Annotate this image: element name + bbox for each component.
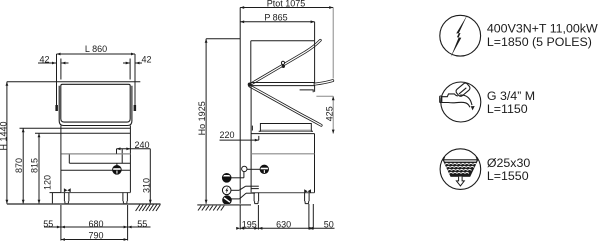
240 dim xyxy=(117,149,151,204)
legs xyxy=(64,193,127,204)
ground hatch middle xyxy=(198,206,224,211)
hood inner shell xyxy=(61,84,130,122)
basin xyxy=(443,157,477,176)
pivot dot xyxy=(248,83,252,87)
svg-text:L=1550: L=1550 xyxy=(487,169,529,183)
ground hatch right xyxy=(136,204,161,211)
down handle (band) xyxy=(250,86,322,125)
connection circle electric xyxy=(222,186,231,195)
svg-text:L 860: L 860 xyxy=(85,44,107,54)
svg-text:Ptot 1075: Ptot 1075 xyxy=(267,0,306,8)
120 dim line xyxy=(51,193,53,204)
870 dim line xyxy=(22,128,24,204)
left rail xyxy=(56,54,58,111)
ground line xyxy=(7,203,161,205)
Ptot dim line xyxy=(240,7,333,9)
Ho dim xyxy=(206,38,240,40)
svg-text:195: 195 xyxy=(242,219,257,229)
hood outer shell xyxy=(59,86,132,126)
svg-text:L=1150: L=1150 xyxy=(487,102,528,116)
body front view xyxy=(61,126,130,193)
svg-text:H 1440: H 1440 xyxy=(0,121,8,150)
side body xyxy=(220,85,315,193)
drain circle side view xyxy=(260,165,268,173)
water icon xyxy=(441,82,481,122)
310 dim line xyxy=(149,149,151,204)
body bottom side view xyxy=(251,192,314,194)
back wall xyxy=(239,8,241,204)
ground line middle xyxy=(197,204,251,206)
42 left dim lines xyxy=(38,62,56,64)
rack on counter xyxy=(259,124,313,132)
220 leader xyxy=(220,139,259,141)
svg-text:870: 870 xyxy=(14,158,24,173)
water line xyxy=(251,153,314,155)
closed hood front edge tick xyxy=(251,126,253,131)
small line under hood right xyxy=(300,90,314,92)
svg-text:400V3N+T 11,00kW: 400V3N+T 11,00kW xyxy=(487,21,598,35)
drain circle left view xyxy=(113,166,122,175)
right rail xyxy=(134,54,136,111)
drain icon xyxy=(440,149,481,190)
electric cable path xyxy=(231,189,239,191)
815 dim line xyxy=(38,133,40,204)
left view dimension arrowheads xyxy=(6,53,152,241)
connection circle water xyxy=(223,196,232,205)
legs side view xyxy=(254,193,309,204)
svg-text:55: 55 xyxy=(43,219,53,229)
svg-text:42: 42 xyxy=(141,54,151,64)
horizontal handle (band, hood raised) xyxy=(315,81,333,85)
svg-text:220: 220 xyxy=(219,130,234,140)
bottom dims left view xyxy=(44,205,151,241)
rail tabs xyxy=(55,105,58,111)
svg-text:310: 310 xyxy=(141,178,151,193)
H 1440 dim line xyxy=(6,82,8,204)
water pipe path xyxy=(231,198,239,200)
svg-text:120: 120 xyxy=(43,175,53,190)
svg-text:630: 630 xyxy=(276,219,291,229)
middle view dimension arrowheads xyxy=(205,6,335,230)
svg-text:G 3/4” M: G 3/4” M xyxy=(487,89,535,103)
top reference line xyxy=(7,81,140,83)
drain stem and bottom line xyxy=(116,163,118,165)
svg-text:L=1850 (5 POLES): L=1850 (5 POLES) xyxy=(487,35,592,49)
svg-text:P 865: P 865 xyxy=(264,13,287,23)
bottom dims middle view xyxy=(240,204,334,230)
faucet xyxy=(440,82,472,107)
body bottom xyxy=(61,192,130,194)
drain arrow xyxy=(456,177,464,186)
svg-text:790: 790 xyxy=(88,230,103,240)
drain pipe to open circle xyxy=(231,166,260,199)
raised hood box xyxy=(251,22,315,92)
water fill xyxy=(444,162,477,177)
svg-text:240: 240 xyxy=(134,140,149,150)
svg-text:55: 55 xyxy=(137,219,147,229)
Ptot/425 extension line (gray) xyxy=(332,8,334,79)
P865 dim line xyxy=(240,21,314,23)
pin on up handle xyxy=(281,61,284,64)
svg-text:425: 425 xyxy=(324,106,334,121)
svg-text:Ho 1925: Ho 1925 xyxy=(197,101,207,135)
foot adjuster bowtie xyxy=(64,188,71,192)
dimension L 860 line xyxy=(57,53,136,55)
svg-text:50: 50 xyxy=(324,219,334,229)
electric icon xyxy=(440,15,481,56)
lightning bolt xyxy=(451,14,468,57)
water level line xyxy=(62,153,131,155)
up handle (band) xyxy=(250,40,321,84)
tank walls xyxy=(68,154,70,163)
hood front view xyxy=(59,84,132,125)
svg-text:Ø25x30: Ø25x30 xyxy=(487,156,531,170)
bowtie side view xyxy=(304,189,311,193)
42 right dim lines xyxy=(123,62,130,64)
svg-text:42: 42 xyxy=(39,54,49,64)
svg-text:680: 680 xyxy=(88,219,103,229)
svg-text:815: 815 xyxy=(29,158,39,173)
connection circle drain xyxy=(222,174,231,183)
